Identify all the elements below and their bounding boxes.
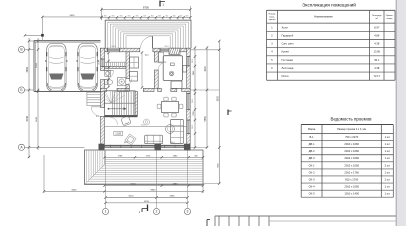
svg-text:6060: 6060 — [72, 189, 78, 191]
left wall segments — [101, 48, 105, 59]
svg-text:3: 3 — [187, 210, 189, 214]
car at x=87.6 — [76, 44, 98, 92]
section mark 1 bottom — [147, 205, 149, 212]
svg-text:5000: 5000 — [36, 62, 38, 68]
stair right wall — [135, 92, 138, 116]
table: explication of rooms — [267, 1, 396, 80]
svg-text:1 шт: 1 шт — [385, 185, 391, 189]
svg-text:1.100: 1.100 — [115, 134, 121, 136]
svg-text:35.1: 35.1 — [374, 58, 380, 62]
svg-text:2 шт: 2 шт — [385, 163, 391, 167]
gate marker dim — [25, 34, 42, 36]
svg-text:900: 900 — [112, 15, 115, 17]
axis bubble 2 — [153, 208, 159, 214]
svg-text:2010 х 1060: 2010 х 1060 — [344, 156, 359, 160]
svg-text:1: 1 — [105, 210, 107, 214]
wall wardrobe bottom + shelves — [105, 62, 127, 66]
svg-text:8700: 8700 — [144, 201, 150, 203]
svg-text:2010 х 1060: 2010 х 1060 — [344, 185, 359, 189]
svg-text:Кухня: Кухня — [282, 50, 290, 54]
svg-text:900: 900 — [151, 15, 154, 17]
svg-text:9900: 9900 — [217, 95, 219, 101]
side door arc — [91, 107, 100, 117]
svg-text:ДВ-1: ДВ-1 — [309, 142, 315, 146]
svg-text:900: 900 — [120, 15, 123, 17]
svg-text:Лестница: Лестница — [282, 66, 294, 70]
svg-text:ОК-1: ОК-1 — [309, 163, 315, 167]
svg-text:900: 900 — [143, 15, 146, 17]
svg-text:4.38: 4.38 — [374, 42, 380, 46]
round table — [166, 125, 175, 134]
svg-text:Наименование: Наименование — [314, 15, 333, 19]
svg-text:900: 900 — [136, 15, 139, 17]
entry porch steps — [105, 20, 191, 48]
armchair rotated — [121, 116, 131, 126]
svg-text:В-1: В-1 — [96, 116, 99, 118]
axis extension lines — [105, 151, 107, 209]
svg-text:ОК-4: ОК-4 — [99, 61, 101, 65]
interior dim chain wardrobe/bath — [108, 53, 110, 87]
svg-text:ОК-5: ОК-5 — [309, 192, 315, 196]
level change line — [105, 126, 187, 128]
axis bubble 1 — [102, 208, 108, 214]
svg-text:1 шт: 1 шт — [385, 149, 391, 153]
svg-text:8700: 8700 — [143, 6, 149, 10]
wall bath right vertical — [126, 52, 129, 79]
right dimension chains — [190, 49, 219, 51]
svg-text:810 х 1760: 810 х 1760 — [345, 177, 359, 181]
axis B wall segments — [101, 88, 107, 91]
svg-text:2010 х 1060: 2010 х 1060 — [344, 163, 359, 167]
section mark right — [227, 110, 229, 116]
svg-text:2690: 2690 — [170, 196, 176, 198]
svg-text:1 шт: 1 шт — [385, 142, 391, 146]
top overall dimension — [101, 8, 103, 20]
svg-text:900: 900 — [179, 15, 182, 17]
plant circle — [144, 119, 150, 125]
svg-text:ДВ-3: ДВ-3 — [309, 156, 315, 160]
side entry steps — [87, 92, 103, 105]
dining table + chairs — [162, 102, 179, 113]
svg-text:ДВ-2: ДВ-2 — [124, 142, 128, 144]
top wall segments — [101, 48, 108, 52]
svg-text:В-1: В-1 — [310, 135, 315, 139]
svg-text:1 шт: 1 шт — [385, 135, 391, 139]
svg-text:ДВ-2: ДВ-2 — [309, 149, 315, 153]
svg-text:Холл: Холл — [282, 25, 289, 29]
sheet frame line — [395, 0, 397, 226]
carport door arc — [105, 71, 114, 80]
section mark 1 top — [159, 1, 161, 7]
svg-text:ОК-2: ОК-2 — [309, 170, 315, 174]
svg-text:5610: 5610 — [36, 116, 38, 122]
svg-text:900: 900 — [158, 15, 161, 17]
bottom dims row3 — [106, 197, 188, 199]
svg-text:2680: 2680 — [173, 184, 179, 186]
svg-text:поме-: поме- — [269, 16, 275, 18]
svg-text:2010 х 1060: 2010 х 1060 — [344, 142, 359, 146]
svg-text:ОК-5: ОК-5 — [192, 99, 194, 103]
svg-text:Приме-: Приме- — [386, 15, 394, 17]
svg-text:Ведомость проемов: Ведомость проемов — [331, 116, 373, 121]
svg-text:Итого: Итого — [282, 74, 290, 78]
svg-text:ДВ-3: ДВ-3 — [170, 142, 174, 144]
svg-text:9840: 9840 — [151, 189, 157, 191]
svg-text:ОК-4: ОК-4 — [309, 185, 315, 189]
title block — [215, 215, 396, 217]
svg-text:Гардероб: Гардероб — [282, 33, 294, 37]
svg-text:900: 900 — [104, 15, 107, 17]
svg-text:Площадь: Площадь — [372, 15, 382, 17]
svg-text:2010 х 1060: 2010 х 1060 — [344, 149, 359, 153]
svg-text:ОК-3: ОК-3 — [309, 177, 315, 181]
svg-text:м²: м² — [376, 17, 379, 20]
rotated coffee table — [125, 134, 136, 145]
bathroom fixtures — [105, 71, 126, 86]
svg-text:8.97: 8.97 — [374, 25, 380, 29]
staircase — [105, 91, 136, 116]
floor level mark 1.100 — [114, 131, 123, 135]
right wall segments — [187, 48, 191, 56]
deck dimension chain — [105, 156, 203, 158]
svg-text:Экспликация помещений: Экспликация помещений — [302, 1, 356, 7]
svg-text:5720: 5720 — [131, 184, 137, 186]
bottom wall piers — [99, 144, 105, 151]
svg-text:5800: 5800 — [205, 115, 207, 121]
svg-text:72.17: 72.17 — [374, 74, 381, 78]
svg-text:Сан. узел: Сан. узел — [282, 42, 294, 46]
svg-text:5730: 5730 — [26, 115, 29, 121]
entrance door swing — [141, 36, 153, 48]
svg-text:4100: 4100 — [205, 66, 207, 72]
svg-text:2: 2 — [156, 210, 158, 214]
svg-text:900: 900 — [173, 15, 176, 17]
left dimension chains — [28, 38, 30, 158]
svg-text:Номер: Номер — [269, 14, 277, 16]
svg-text:1010 х 1400: 1010 х 1400 — [344, 192, 359, 196]
svg-text:чание: чание — [386, 18, 393, 20]
svg-text:5010: 5010 — [129, 196, 135, 198]
svg-text:Гостиная: Гостиная — [282, 58, 294, 62]
svg-text:ДВ-1: ДВ-1 — [145, 55, 149, 57]
hall shoe cabinet — [130, 72, 138, 82]
svg-text:4.86: 4.86 — [374, 33, 380, 37]
svg-text:5920: 5920 — [70, 15, 76, 17]
svg-text:1 шт: 1 шт — [385, 170, 391, 174]
bottom dims row1 — [105, 185, 203, 187]
vent shaft kitchen — [169, 48, 180, 54]
top segment chain — [102, 16, 191, 18]
car at x=56.3 — [45, 44, 67, 92]
carport top width dimension — [42, 16, 101, 18]
svg-text:900: 900 — [165, 15, 168, 17]
kitchen left cabinet — [159, 52, 164, 63]
bottom dims row2 — [44, 190, 203, 192]
svg-text:ОК-3: ОК-3 — [192, 59, 194, 63]
axis bubble Б — [18, 87, 24, 93]
axis bubble 3 — [184, 208, 190, 214]
table: schedule of openings — [301, 116, 393, 197]
kitchen nook table — [171, 81, 182, 89]
svg-text:900: 900 — [128, 15, 131, 17]
bottom dims row4 — [106, 202, 188, 204]
bottom wall glazing + piers — [105, 144, 155, 146]
svg-text:Размер проема b х h, мм: Размер проема b х h, мм — [337, 128, 366, 131]
sofa vertical right — [171, 120, 184, 144]
svg-text:13.06: 13.06 — [374, 50, 381, 54]
kitchen island block — [163, 56, 182, 81]
svg-text:4.38: 4.38 — [374, 66, 380, 70]
svg-text:ОК-1: ОК-1 — [164, 46, 168, 48]
svg-text:1 шт: 1 шт — [385, 156, 391, 160]
svg-text:1 шт: 1 шт — [385, 192, 391, 196]
sheet gray margin — [397, 0, 406, 226]
axis bubble А — [18, 144, 24, 150]
interior dim chain hall — [141, 53, 143, 88]
svg-text:2010 х 1760: 2010 х 1760 — [344, 170, 359, 174]
svg-text:Марка: Марка — [308, 128, 316, 131]
svg-text:щения: щения — [269, 19, 276, 21]
svg-text:ОК-2: ОК-2 — [111, 46, 115, 48]
svg-text:900: 900 — [185, 15, 188, 17]
axis bubble В — [18, 46, 24, 52]
hall coat closet — [130, 57, 139, 68]
wall hall/kitchen vertical — [154, 52, 158, 62]
carport outline — [34, 39, 101, 41]
svg-text:700 х 2070: 700 х 2070 — [345, 135, 359, 139]
sofa horizontal — [145, 135, 163, 144]
svg-text:4050: 4050 — [26, 66, 29, 72]
kitchen right appliance — [183, 66, 187, 73]
svg-text:ОК-3: ОК-3 — [192, 125, 194, 129]
svg-text:2 шт: 2 шт — [385, 177, 391, 181]
deck/terrace — [85, 150, 204, 185]
stair bottom wall — [105, 115, 138, 117]
